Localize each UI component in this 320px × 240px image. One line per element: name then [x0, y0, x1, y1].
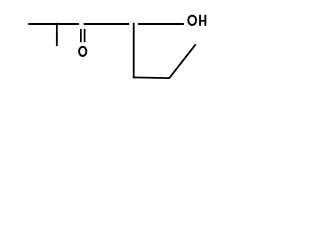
- double bond C=O line 1: [80, 29, 82, 42]
- atom label OH (hydroxyl): [188, 15, 206, 26]
- bond C6-C7 (diagonal up-right): [169, 44, 196, 78]
- bond CH-C3 (isopropyl CH to carbonyl C): [57, 23, 79, 25]
- bond C3-C4 (carbonyl C to carbinol C): [84, 23, 130, 25]
- bond CH-CH3 (methyl down): [56, 23, 58, 46]
- bond C4-OH: [138, 23, 184, 25]
- bond C4-C5 (vertical down): [133, 23, 135, 78]
- atom label O (ketone oxygen): [79, 47, 86, 56]
- bond CH3-CH (left methyl to isopropyl CH): [28, 23, 57, 25]
- bond C5-C6 (bottom, nearly horizontal): [133, 76, 170, 79]
- double bond C=O line 2: [84, 29, 86, 42]
